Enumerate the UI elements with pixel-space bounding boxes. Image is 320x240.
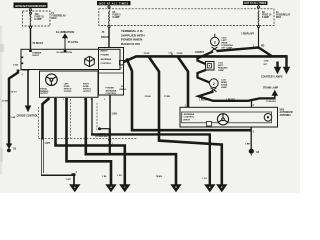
svg-text:RADIO: RADIO xyxy=(120,88,127,91)
svg-text:CONTROL: CONTROL xyxy=(184,117,195,119)
svg-text:1 BR: 1 BR xyxy=(245,143,250,145)
svg-text:1 GY: 1 GY xyxy=(202,178,208,180)
svg-text:2: 2 xyxy=(214,40,216,44)
svg-text:ILLUMINATION: ILLUMINATION xyxy=(57,51,73,54)
svg-text:BOX: BOX xyxy=(276,17,281,19)
svg-text:INPUT: INPUT xyxy=(33,55,40,57)
svg-text:.75 GY: .75 GY xyxy=(10,91,17,93)
svg-text:1 PU: 1 PU xyxy=(117,175,122,177)
svg-text:HOT AT ALL TIMES: HOT AT ALL TIMES xyxy=(99,1,128,5)
svg-text:.75 BK: .75 BK xyxy=(2,101,9,103)
svg-text:.75 BK: .75 BK xyxy=(143,53,150,55)
svg-text:AUTOMATIC: AUTOMATIC xyxy=(280,111,294,114)
svg-text:1 BK: 1 BK xyxy=(11,117,16,119)
svg-text:RD/GN: RD/GN xyxy=(101,36,109,39)
svg-text:.75 BK/GY: .75 BK/GY xyxy=(32,42,44,45)
svg-text:8 AMP: 8 AMP xyxy=(262,16,269,19)
svg-text:1 RD: 1 RD xyxy=(264,61,269,63)
svg-text:.75 BK/WT: .75 BK/WT xyxy=(20,70,31,72)
svg-text:ANTENNA: ANTENNA xyxy=(184,113,195,116)
svg-text:.75 BN: .75 BN xyxy=(164,96,171,98)
svg-text:LAMP: LAMP xyxy=(221,86,228,89)
svg-text:INPUT: INPUT xyxy=(184,119,191,121)
svg-text:HOT IN ACCY-RUN OR START: HOT IN ACCY-RUN OR START xyxy=(15,5,46,8)
svg-text:POWER: POWER xyxy=(106,88,115,90)
svg-text:POWER: POWER xyxy=(101,55,110,57)
svg-text:OUTPUT: OUTPUT xyxy=(40,93,49,95)
svg-text:ILLUMINATION: ILLUMINATION xyxy=(56,30,75,34)
svg-text:CRUISE CONTROL: CRUISE CONTROL xyxy=(17,114,39,117)
svg-text:8 AMP: 8 AMP xyxy=(113,16,120,19)
svg-text:RADIO: RADIO xyxy=(101,49,108,52)
svg-text:EXT LAMP: EXT LAMP xyxy=(222,47,233,50)
svg-text:1 RD/WT: 1 RD/WT xyxy=(199,100,209,102)
svg-text:BOX: BOX xyxy=(52,18,57,20)
svg-text:.75 BN: .75 BN xyxy=(155,176,162,178)
svg-text:CONTROL: CONTROL xyxy=(106,93,117,95)
svg-text:M33: M33 xyxy=(280,109,285,111)
svg-text:FUSE 14: FUSE 14 xyxy=(262,14,272,17)
svg-text:10A: 10A xyxy=(35,13,40,16)
svg-text:1 BN: 1 BN xyxy=(112,114,118,116)
svg-text:.75 BN: .75 BN xyxy=(144,96,151,98)
svg-text:8A: 8A xyxy=(113,11,116,14)
svg-text:RD: RD xyxy=(261,45,265,47)
svg-text:8A: 8A xyxy=(262,11,265,14)
svg-text:C100: C100 xyxy=(13,64,19,66)
svg-text:1 RD/FL/WT: 1 RD/FL/WT xyxy=(241,33,254,35)
svg-text:ANTENNA: ANTENNA xyxy=(101,58,112,61)
svg-text:LAMP: LAMP xyxy=(218,69,225,72)
svg-text:1 BL: 1 BL xyxy=(102,176,107,178)
svg-text:.75 BL/WT: .75 BL/WT xyxy=(266,101,277,103)
svg-text:(POWER ANT): (POWER ANT) xyxy=(95,135,109,138)
svg-text:S761: S761 xyxy=(100,134,106,136)
svg-text:TRUNK LAMP: TRUNK LAMP xyxy=(263,86,279,89)
svg-text:ANTENNA: ANTENNA xyxy=(280,114,292,117)
svg-text:.75 BN: .75 BN xyxy=(176,53,183,55)
svg-text:1 RD/WT: 1 RD/WT xyxy=(195,52,205,54)
svg-text:1 RD/WT: 1 RD/WT xyxy=(226,99,236,101)
svg-text:CONTROL: CONTROL xyxy=(101,63,112,65)
svg-text:ANTENNA: ANTENNA xyxy=(106,89,117,92)
svg-text:COURTESY LAMPS: COURTESY LAMPS xyxy=(261,76,283,79)
svg-text:HOT AT ALL TIMES: HOT AT ALL TIMES xyxy=(244,2,266,5)
svg-text:2: 2 xyxy=(213,82,215,86)
svg-text:.75 GY/BL: .75 GY/BL xyxy=(67,41,79,44)
svg-text:OUTPUT: OUTPUT xyxy=(83,91,92,93)
svg-text:8 AMP: 8 AMP xyxy=(35,18,42,21)
svg-text:RADIO IS ON: RADIO IS ON xyxy=(121,42,140,46)
svg-text:1 WT: 1 WT xyxy=(45,143,51,145)
svg-text:OUTPUT: OUTPUT xyxy=(64,91,73,93)
svg-text:1 WT: 1 WT xyxy=(66,179,72,181)
